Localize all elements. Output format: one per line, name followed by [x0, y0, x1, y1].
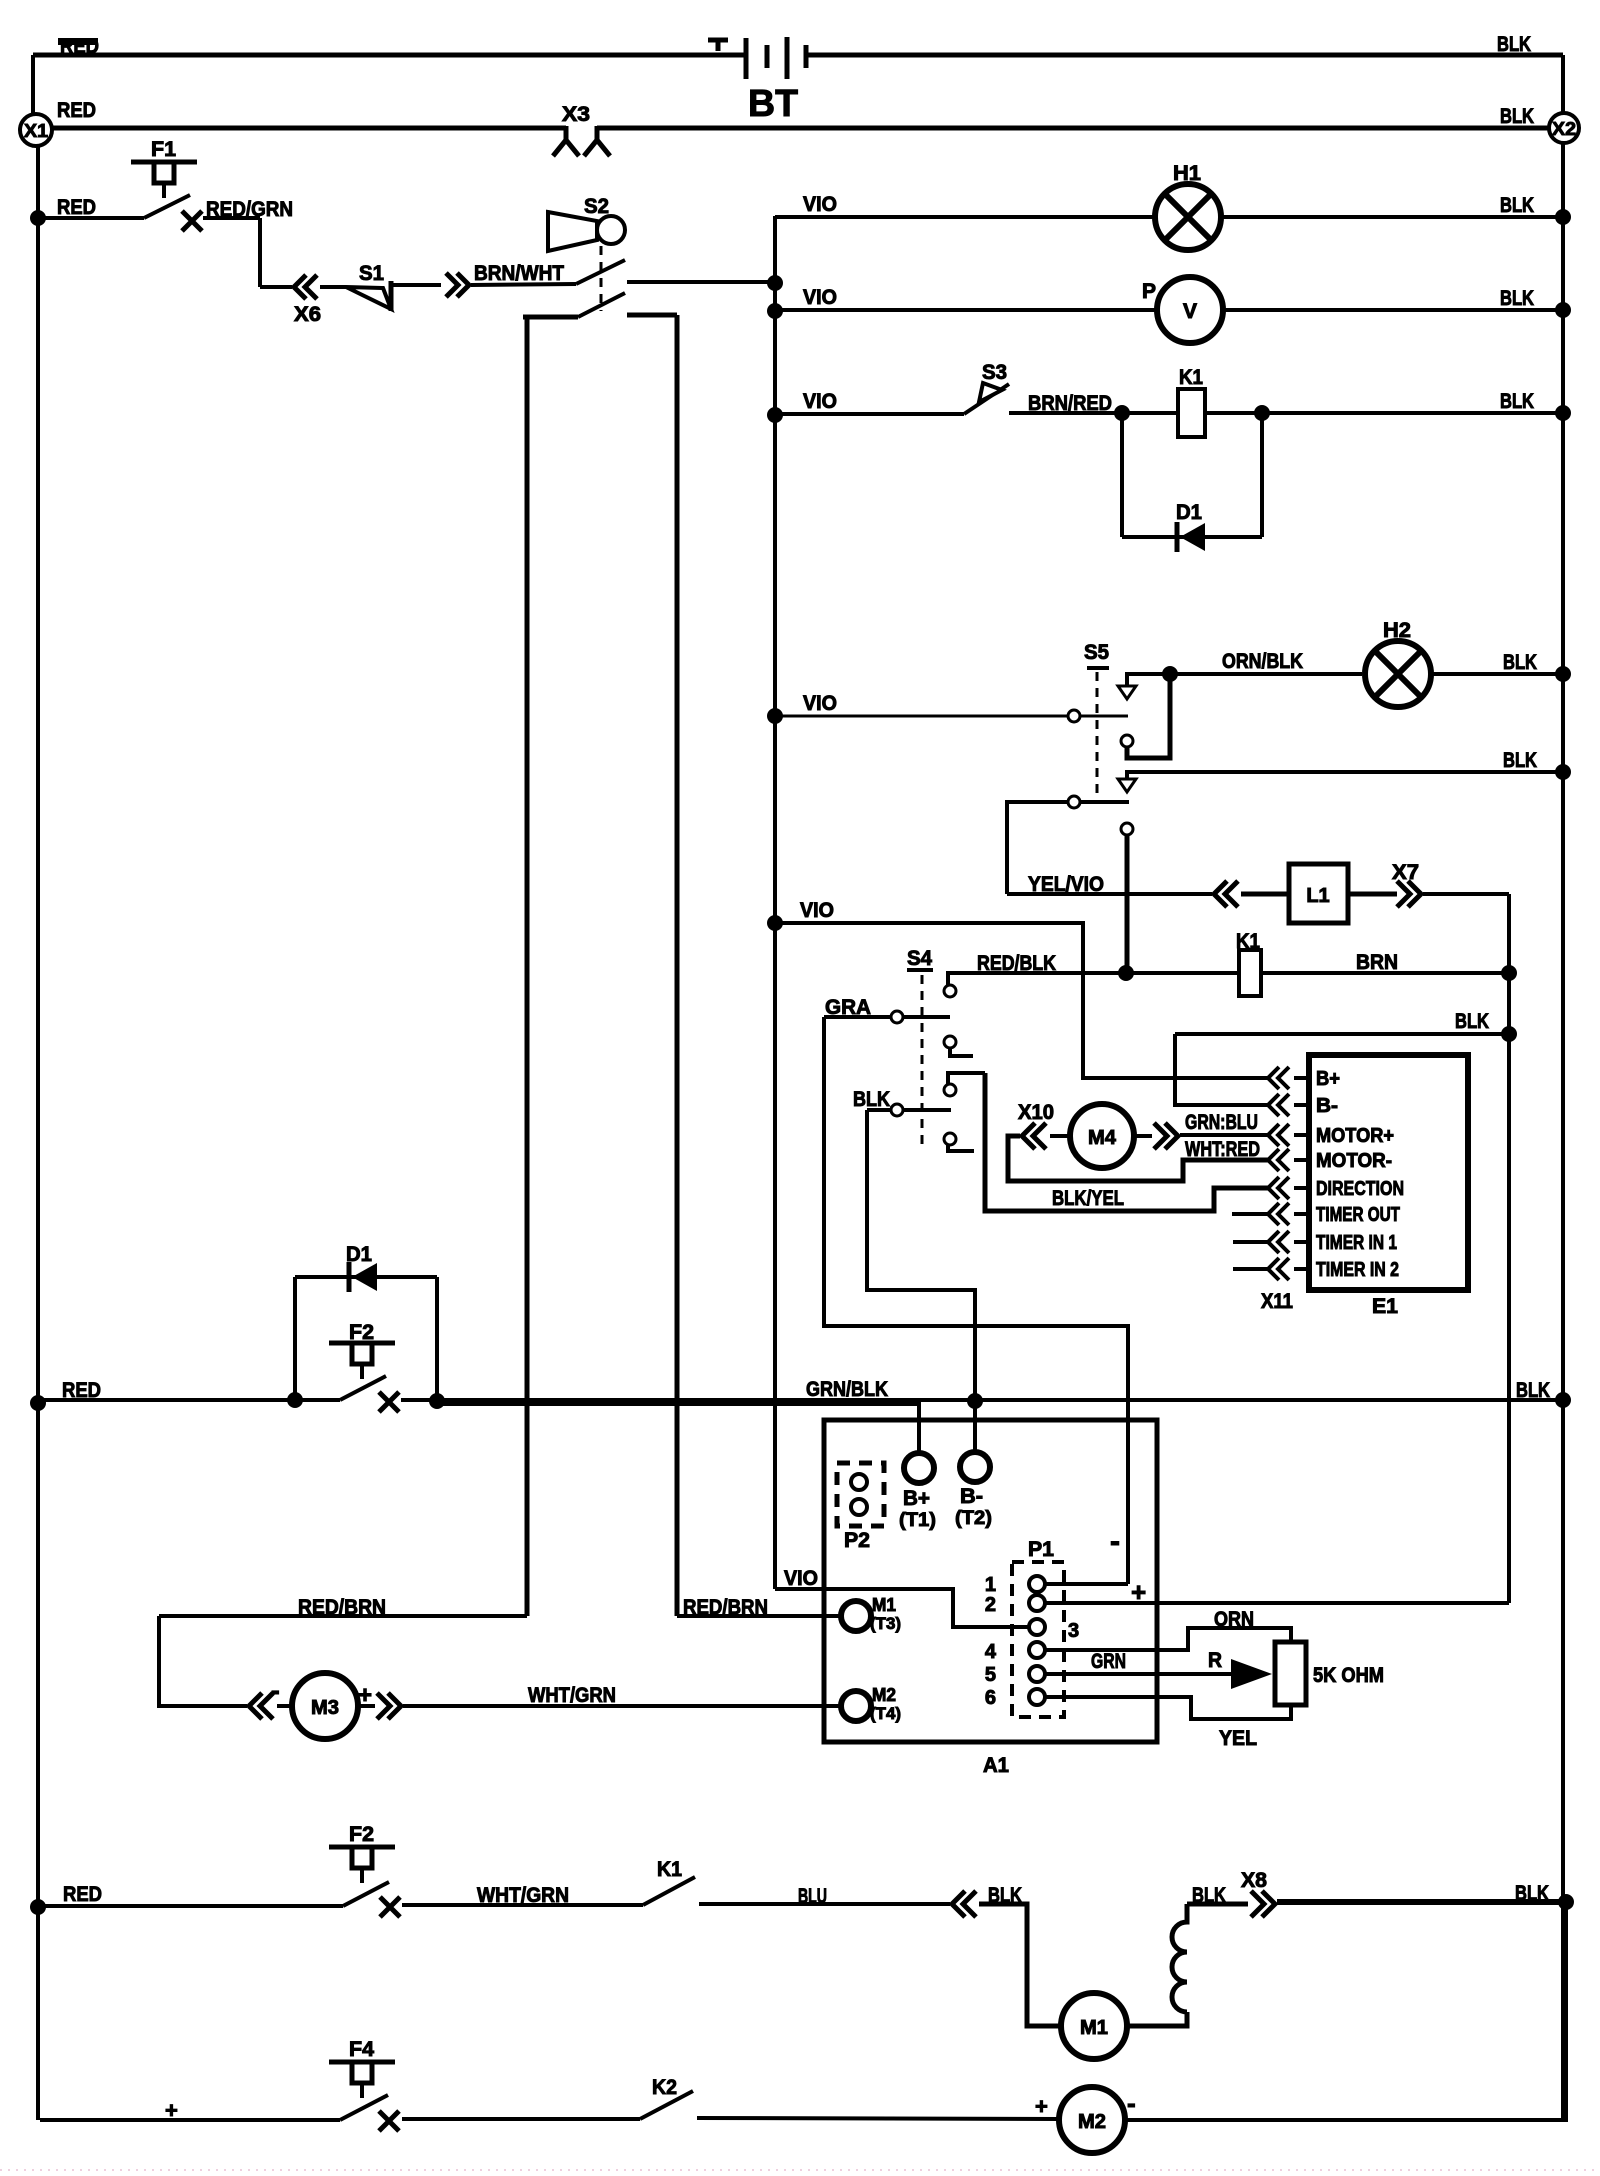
svg-text:M4: M4 — [1088, 1127, 1117, 1149]
svg-text:BLU: BLU — [798, 1885, 827, 1908]
svg-text:VIO: VIO — [803, 286, 837, 309]
svg-text:K2: K2 — [652, 2076, 677, 2099]
svg-text:(T1): (T1) — [899, 1510, 936, 1531]
svg-text:BLK: BLK — [1515, 1882, 1549, 1905]
svg-text:E1: E1 — [1372, 1295, 1398, 1318]
svg-text:L1: L1 — [1306, 885, 1329, 907]
svg-text:BLK: BLK — [1500, 287, 1534, 310]
svg-text:B-: B- — [960, 1485, 983, 1508]
svg-text:X10: X10 — [1018, 1101, 1054, 1124]
svg-text:-: - — [1127, 2088, 1136, 2118]
svg-text:-: - — [271, 1675, 280, 1705]
svg-text:M1: M1 — [872, 1595, 896, 1615]
svg-text:R: R — [1208, 1649, 1222, 1672]
svg-text:GRN:BLU: GRN:BLU — [1185, 1111, 1258, 1134]
svg-text:X2: X2 — [1552, 119, 1576, 139]
svg-text:GRN/BLK: GRN/BLK — [806, 1378, 888, 1401]
svg-text:S4: S4 — [907, 947, 932, 970]
svg-text:BLK: BLK — [853, 1088, 890, 1111]
svg-text:K1: K1 — [1179, 366, 1203, 389]
svg-text:B+: B+ — [903, 1487, 930, 1510]
svg-text:BLK: BLK — [1503, 749, 1537, 772]
svg-text:VIO: VIO — [784, 1567, 818, 1590]
svg-text:+: + — [165, 2098, 178, 2123]
svg-text:M2: M2 — [1078, 2111, 1106, 2133]
svg-text:X1: X1 — [24, 121, 48, 141]
svg-text:X3: X3 — [562, 103, 590, 126]
svg-text:BLK/YEL: BLK/YEL — [1052, 1187, 1124, 1210]
svg-text:(T2): (T2) — [955, 1508, 992, 1529]
svg-text:(T4): (T4) — [870, 1704, 901, 1723]
svg-text:BT: BT — [748, 83, 798, 125]
svg-text:5: 5 — [985, 1664, 996, 1686]
svg-text:S2: S2 — [584, 195, 609, 218]
svg-text:F2: F2 — [349, 1321, 374, 1344]
svg-text:X11: X11 — [1261, 1290, 1293, 1313]
svg-text:BLK: BLK — [1503, 651, 1537, 674]
svg-text:X7: X7 — [1392, 861, 1419, 884]
svg-text:K1: K1 — [1236, 930, 1260, 953]
svg-text:2: 2 — [985, 1594, 996, 1616]
svg-text:ORN: ORN — [1214, 1608, 1254, 1631]
svg-text:3: 3 — [1068, 1620, 1079, 1642]
svg-text:VIO: VIO — [803, 692, 837, 715]
svg-text:F1: F1 — [151, 138, 176, 161]
svg-text:-: - — [1110, 1525, 1120, 1558]
svg-text:RED/BLK: RED/BLK — [977, 952, 1056, 975]
svg-text:BLK: BLK — [1500, 105, 1534, 128]
svg-text:RED: RED — [57, 196, 96, 219]
svg-text:YEL: YEL — [1219, 1727, 1257, 1750]
svg-text:F4: F4 — [349, 2038, 374, 2061]
svg-text:MOTOR+: MOTOR+ — [1316, 1125, 1394, 1147]
svg-text:P2: P2 — [844, 1529, 870, 1552]
svg-text:M1: M1 — [1080, 2017, 1108, 2039]
svg-text:K1: K1 — [657, 1858, 682, 1881]
svg-text:MOTOR-: MOTOR- — [1316, 1150, 1392, 1172]
svg-text:VIO: VIO — [803, 193, 837, 216]
svg-text:D1: D1 — [1176, 501, 1202, 524]
svg-text:X8: X8 — [1241, 1869, 1267, 1892]
svg-text:BRN/RED: BRN/RED — [1028, 392, 1112, 415]
svg-text:DIRECTION: DIRECTION — [1316, 1178, 1404, 1200]
svg-text:P: P — [1142, 280, 1156, 303]
svg-text:ORN/BLK: ORN/BLK — [1222, 650, 1303, 673]
svg-text:RED/GRN: RED/GRN — [206, 198, 293, 221]
svg-text:VIO: VIO — [803, 390, 837, 413]
svg-text:BLK: BLK — [1497, 33, 1531, 56]
svg-text:BRN: BRN — [1356, 951, 1398, 974]
svg-text:X6: X6 — [294, 303, 321, 326]
svg-text:F2: F2 — [349, 1823, 374, 1846]
svg-text:H2: H2 — [1383, 619, 1411, 642]
svg-text:TIMER IN 1: TIMER IN 1 — [1316, 1232, 1397, 1254]
svg-text:1: 1 — [985, 1574, 996, 1596]
svg-text:M2: M2 — [872, 1685, 896, 1705]
svg-text:S5: S5 — [1084, 641, 1109, 664]
svg-text:M3: M3 — [311, 1697, 339, 1719]
svg-text:B+: B+ — [1316, 1068, 1340, 1090]
svg-text:BLK: BLK — [1500, 390, 1534, 413]
svg-text:P1: P1 — [1028, 1538, 1054, 1561]
svg-text:B-: B- — [1316, 1095, 1338, 1117]
svg-text:S3: S3 — [982, 361, 1007, 384]
svg-text:+: + — [358, 1682, 372, 1709]
svg-text:V: V — [1183, 300, 1197, 323]
svg-text:RED: RED — [57, 99, 96, 122]
svg-text:BLK: BLK — [1500, 194, 1534, 217]
svg-text:BLK: BLK — [1455, 1010, 1489, 1033]
svg-text:TIMER IN 2: TIMER IN 2 — [1316, 1259, 1399, 1281]
svg-text:WHT:RED: WHT:RED — [1185, 1138, 1260, 1161]
svg-text:RED: RED — [63, 1883, 102, 1906]
svg-text:+: + — [1035, 2094, 1048, 2119]
svg-text:(T3): (T3) — [870, 1614, 901, 1633]
svg-text:VIO: VIO — [800, 899, 834, 922]
svg-text:BRN/WHT: BRN/WHT — [474, 262, 564, 285]
svg-text:5K OHM: 5K OHM — [1313, 1664, 1384, 1687]
svg-text:BLK: BLK — [1192, 1884, 1226, 1907]
svg-text:A1: A1 — [983, 1754, 1009, 1777]
svg-text:WHT/GRN: WHT/GRN — [528, 1684, 616, 1707]
svg-text:6: 6 — [985, 1687, 996, 1709]
svg-text:H1: H1 — [1173, 162, 1201, 185]
svg-text:BLK: BLK — [1516, 1379, 1550, 1402]
svg-text:GRN: GRN — [1091, 1650, 1126, 1673]
svg-text:TIMER OUT: TIMER OUT — [1316, 1204, 1400, 1226]
svg-text:WHT/GRN: WHT/GRN — [477, 1884, 569, 1907]
svg-text:4: 4 — [985, 1641, 997, 1663]
svg-text:S1: S1 — [359, 262, 384, 285]
svg-text:D1: D1 — [346, 1243, 372, 1266]
